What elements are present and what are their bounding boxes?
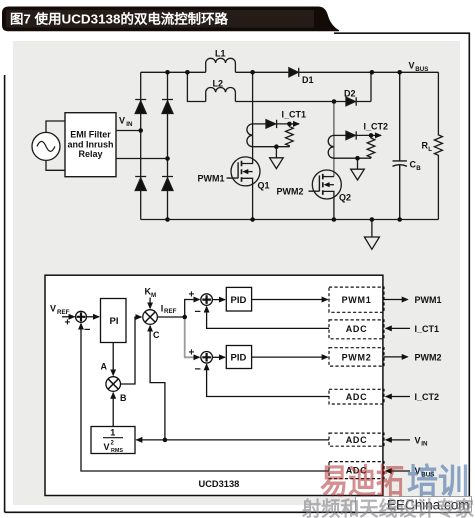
svg-text:Q1: Q1 [258,181,270,191]
svg-text:ADC: ADC [346,324,368,334]
svg-text:and Inrush: and Inrush [67,139,113,149]
svg-text:V: V [104,442,110,452]
svg-text:IN: IN [421,441,428,448]
svg-text:V: V [50,304,56,314]
svg-text:I: I [161,303,164,313]
svg-text:ADC: ADC [346,392,368,402]
svg-text:B: B [120,393,127,403]
svg-text:−: − [84,324,90,336]
svg-text:易迪拓: 易迪拓 [320,463,404,501]
svg-text:−: − [195,306,201,318]
svg-text:+: + [189,290,195,301]
svg-text:EMI Filter: EMI Filter [70,129,111,139]
svg-text:PWM1: PWM1 [198,174,225,184]
svg-text:L: L [428,146,432,153]
svg-text:−: − [195,364,201,376]
svg-text:L1: L1 [215,49,226,59]
svg-text:培训: 培训 [407,463,469,501]
svg-text:PWM1: PWM1 [415,295,442,305]
svg-text:PI: PI [110,316,119,327]
svg-text:UCD3138: UCD3138 [199,479,240,489]
svg-text:PID: PID [231,353,247,364]
svg-text:M: M [151,292,156,299]
svg-text:REF: REF [164,308,177,315]
svg-text:B: B [416,165,421,172]
svg-text:I_CT1: I_CT1 [415,324,440,334]
svg-text:Q2: Q2 [339,193,351,203]
svg-text:D2: D2 [344,89,356,99]
svg-text:RMS: RMS [111,448,123,454]
svg-text:+: + [189,347,195,358]
svg-text:V: V [415,435,421,445]
svg-text:图7 使用UCD3138的双电流控制环路: 图7 使用UCD3138的双电流控制环路 [10,12,229,27]
svg-text:REF: REF [57,309,70,316]
svg-text:V: V [409,61,415,71]
svg-text:IN: IN [126,121,133,128]
svg-text:PWM2: PWM2 [277,187,304,197]
svg-text:A: A [101,362,108,372]
svg-text:I_CT2: I_CT2 [364,122,389,132]
svg-text:PWM1: PWM1 [342,295,372,305]
svg-text:PWM2: PWM2 [415,352,442,362]
svg-text:BUS: BUS [415,66,428,73]
svg-text:ADC: ADC [346,435,368,445]
svg-text:D1: D1 [302,75,314,85]
svg-text:1: 1 [110,428,115,438]
svg-text:+: + [65,318,71,329]
svg-text:射频和天线设计专家: 射频和天线设计专家 [301,497,475,518]
svg-text:V: V [119,116,125,126]
svg-text:PWM2: PWM2 [342,352,372,362]
svg-text:I_CT2: I_CT2 [415,392,440,402]
svg-text:PID: PID [231,295,247,306]
svg-text:I_CT1: I_CT1 [282,110,307,120]
svg-text:C: C [153,330,160,340]
svg-text:Relay: Relay [78,149,102,159]
svg-text:L2: L2 [213,79,224,89]
